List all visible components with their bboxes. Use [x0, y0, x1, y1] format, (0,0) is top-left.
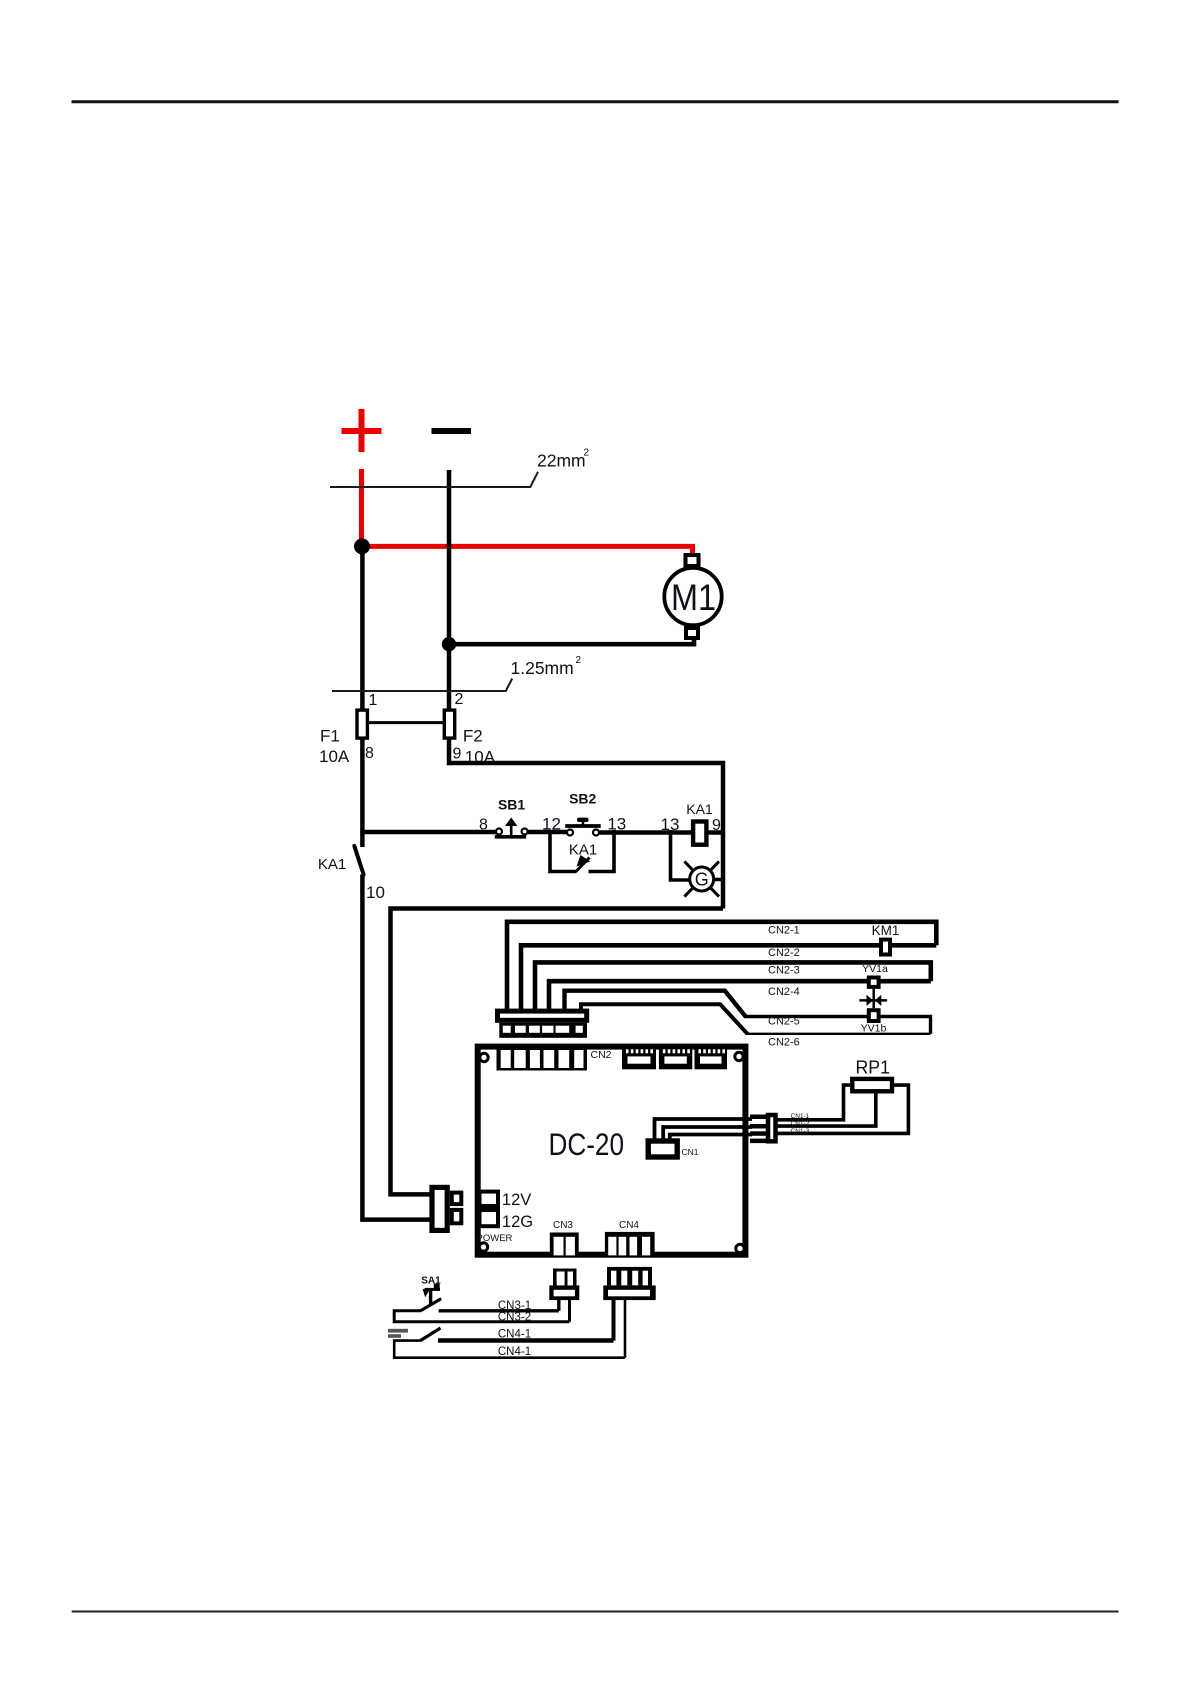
selector switch SA1 contact blade: [421, 1299, 441, 1311]
svg-text:13: 13: [607, 815, 626, 834]
svg-text:CN2-6: CN2-6: [768, 1037, 800, 1049]
svg-text:10: 10: [366, 883, 385, 902]
wire CN2-3: [535, 962, 931, 1010]
motor M1 circle: [664, 568, 721, 625]
svg-text:CN4-1: CN4-1: [498, 1329, 531, 1341]
CN1 mating plug at board edge: [750, 1115, 776, 1144]
svg-text:SB2: SB2: [569, 791, 596, 807]
wire: red positive feed from + down: [359, 469, 364, 547]
contactor coil KM1: [881, 940, 890, 955]
svg-text:RP1: RP1: [856, 1057, 891, 1078]
solenoid valve symbol between YV1a and YV1b: [859, 989, 887, 1008]
CN3 plug legs: [557, 1300, 560, 1311]
svg-text:2: 2: [455, 691, 464, 708]
svg-text:CN2-1: CN2-1: [768, 925, 800, 937]
wire CN3-1: [439, 1309, 559, 1312]
svg-text:CN1-2: CN1-2: [791, 1120, 810, 1127]
fuse F1: [357, 710, 367, 738]
svg-text:DC-20: DC-20: [549, 1126, 625, 1162]
lower selector switch contact blade: [420, 1328, 440, 1341]
wire: branch to horn G: [671, 830, 724, 880]
svg-text:M1: M1: [671, 577, 716, 618]
svg-text:G: G: [695, 870, 709, 890]
wire CN2-4: [549, 981, 931, 1010]
svg-text:CN1-3: CN1-3: [791, 1128, 810, 1135]
connector CN1 on board: [648, 1141, 677, 1157]
svg-text:CN2-2: CN2-2: [768, 947, 800, 959]
svg-text:KA1: KA1: [569, 842, 597, 859]
svg-text:CN2-5: CN2-5: [768, 1016, 800, 1028]
CN3 mating plug below board: [549, 1269, 579, 1301]
connector CN4 on board: [605, 1232, 655, 1257]
POWER plug body: [432, 1187, 447, 1230]
battery negative terminal symbol (-): [432, 428, 472, 434]
CN4 plug legs: [612, 1300, 616, 1341]
svg-text:CN3-2: CN3-2: [498, 1312, 531, 1324]
board top connector 2: [659, 1048, 692, 1070]
connector CN3 on board: [550, 1233, 579, 1257]
node: junction dot on positive rail: [354, 538, 370, 554]
mounting hole bottom-right: [736, 1244, 744, 1252]
board terminal 12G: [480, 1210, 499, 1226]
wire: motor return to negative rail: [449, 638, 694, 644]
svg-text:CN1-1: CN1-1: [791, 1113, 810, 1120]
wire CN3-2 with left return: [394, 1311, 569, 1322]
wire: negative feed vertical: [447, 470, 452, 709]
svg-text:22mm: 22mm: [537, 451, 586, 471]
svg-text:CN2-4: CN2-4: [768, 986, 800, 998]
control board DC-20 outline: [478, 1047, 746, 1255]
wire CN2-5: [565, 991, 747, 1017]
svg-text:2: 2: [576, 655, 582, 666]
svg-text:CN2: CN2: [591, 1049, 612, 1061]
motor M1 bottom terminal: [686, 628, 698, 638]
board terminal 12V: [480, 1192, 499, 1206]
wire: left rail from positive node down to KA1 contact: [360, 546, 365, 847]
relay contact KA1 (self hold, normally open): [576, 858, 590, 873]
potentiometer RP1 body: [852, 1079, 892, 1091]
svg-text:1.25mm: 1.25mm: [511, 658, 574, 678]
wire CN4-1 lower with left return: [394, 1341, 625, 1358]
svg-text:KA1: KA1: [318, 856, 346, 873]
connector CN2 on board: [497, 1048, 588, 1071]
solenoid coil YV1b: [869, 1010, 879, 1021]
page bottom rule: [72, 1611, 1119, 1613]
svg-text:8: 8: [365, 745, 374, 762]
harness plug above CN2: body: [498, 1011, 587, 1020]
POWER plug tooth 1: [452, 1193, 462, 1205]
cable size annotation 22mm2 line: [330, 472, 538, 487]
wire: control loop bottom and drop to POWER plug: [391, 909, 724, 1195]
svg-text:SB1: SB1: [498, 797, 525, 813]
svg-text:F2: F2: [463, 727, 483, 746]
svg-text:CN3-1: CN3-1: [498, 1300, 531, 1312]
svg-text:12V: 12V: [502, 1191, 531, 1209]
motor M1 top terminal: [686, 555, 699, 566]
svg-text:1: 1: [369, 692, 378, 709]
svg-text:YV1a: YV1a: [862, 963, 888, 975]
svg-text:8: 8: [479, 817, 488, 834]
battery positive terminal symbol (+): [342, 409, 382, 452]
svg-text:9: 9: [712, 817, 721, 834]
svg-text:2: 2: [584, 448, 590, 459]
wire: crossbar linking F1 and F2: [369, 721, 443, 724]
svg-text:CN3: CN3: [553, 1220, 573, 1231]
wire CN2-1: [507, 922, 936, 1010]
wires from CN1 to board edge: [655, 1119, 753, 1140]
mounting hole top-right: [735, 1052, 743, 1060]
horn G spokes: [684, 861, 719, 896]
cable size annotation 1.25mm2 line: [332, 679, 512, 692]
board top connector 1: [622, 1048, 656, 1070]
POWER plug tooth 2: [452, 1210, 462, 1223]
mounting hole top-left: [480, 1053, 488, 1061]
svg-text:CN4: CN4: [619, 1220, 639, 1231]
svg-text:F1: F1: [320, 726, 340, 745]
svg-text:9: 9: [453, 745, 462, 762]
selector switch SA1 actuator: [423, 1284, 441, 1305]
wire CN2-6: [581, 1004, 747, 1034]
page top rule: [72, 100, 1119, 103]
svg-text:KA1: KA1: [686, 801, 713, 817]
svg-text:POWER: POWER: [477, 1233, 513, 1244]
svg-text:KM1: KM1: [872, 923, 900, 938]
wire CN1-2 to RP1 wiper: [777, 1093, 876, 1126]
solenoid coil YV1a: [869, 978, 879, 987]
svg-text:CN1: CN1: [682, 1147, 699, 1157]
board top connector 3: [695, 1048, 728, 1070]
CN4 mating plug below board: [603, 1267, 655, 1300]
wire CN2-2: [521, 945, 936, 1010]
mounting hole bottom-left: [479, 1243, 487, 1251]
wire: from F2 down then right and down right rail of control loop: [449, 740, 723, 909]
pushbutton SB1: [495, 818, 528, 837]
harness plug above CN2: pin comb: [499, 1023, 587, 1038]
wire: control rail: [362, 830, 723, 835]
pushbutton SB2: [565, 818, 600, 836]
wire CN1-1 to RP1: [777, 1085, 851, 1120]
horn G circle: [690, 867, 714, 891]
relay coil KA1: [693, 822, 706, 845]
wire: red feed from node to motor M1: [360, 546, 693, 554]
svg-text:YV1b: YV1b: [861, 1023, 887, 1035]
svg-text:CN4-1: CN4-1: [498, 1346, 531, 1358]
fuse F2: [444, 710, 454, 738]
wire CN1-3 to RP1: [777, 1085, 908, 1133]
tiny gray note text beside lower switch: [388, 1329, 408, 1333]
wire: KA1 self-hold branch: [550, 830, 614, 872]
svg-text:CN2-3: CN2-3: [768, 965, 800, 977]
node: junction dot on negative rail: [442, 637, 456, 651]
wire CN4-1 (thick): [438, 1338, 614, 1342]
svg-text:10A: 10A: [319, 747, 350, 766]
svg-text:12G: 12G: [502, 1213, 533, 1231]
relay contact KA1 (normally open, on left rail): [354, 846, 363, 875]
wire: left rail lower run to POWER plug: [362, 875, 430, 1220]
